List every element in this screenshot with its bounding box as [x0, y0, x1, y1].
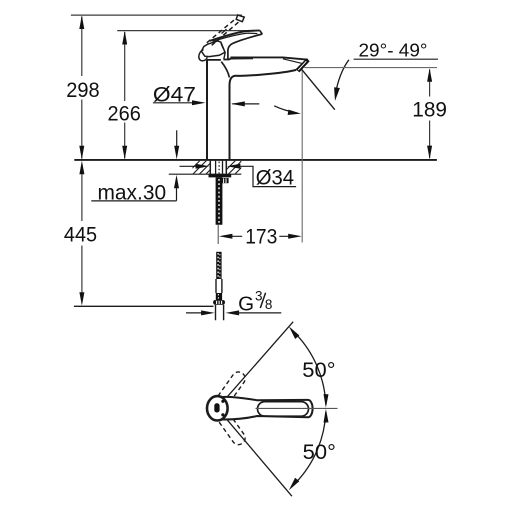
- angle leader arrowhead: [334, 87, 340, 101]
- swing arc lower bottom arrowhead: [289, 478, 299, 490]
- svg-text:189: 189: [412, 98, 447, 122]
- dimension 173 right arrowhead: [288, 234, 302, 239]
- dimension 266 line: [124, 32, 126, 159]
- dimension 298 line: [81, 17, 83, 159]
- swing arc lower: [296, 412, 326, 483]
- raised lever dashed lines: [207, 16, 242, 45]
- handle top view: swing diagonal lower: [218, 408, 292, 496]
- G3/8 underline: [237, 312, 281, 314]
- handle top view: swing diagonal upper: [218, 322, 294, 408]
- shank tube through deck: [210, 161, 226, 175]
- G3/8 tube: [216, 305, 224, 320]
- dimension 189 line: [429, 70, 431, 159]
- swing arc upper top arrowhead: [289, 326, 299, 339]
- diameter 34 right arrowhead: [227, 164, 241, 169]
- svg-text:173: 173: [245, 225, 277, 249]
- faucet body left edge: [206, 60, 208, 159]
- bottom reference line (445 level): [74, 305, 214, 307]
- reference line lever top (266 level): [117, 30, 248, 32]
- max30 bottom arrowhead: [174, 175, 179, 189]
- swing arc upper bottom arrowhead: [324, 394, 329, 408]
- dimension 445 arrow down: [79, 292, 84, 306]
- swivel curved arrow: [274, 106, 296, 113]
- dimension 173 left arrowhead: [219, 234, 233, 239]
- diameter 34 leader and underline: [238, 166, 296, 186]
- hose centerline: [217, 225, 219, 244]
- faucet body inner fillet: [221, 62, 229, 78]
- handle dashed position lower: [214, 408, 247, 447]
- dimension 445 line: [81, 164, 83, 299]
- lever blade underside: [228, 34, 262, 59]
- diameter 47 left-pointing arrow and line: [232, 103, 259, 105]
- dimension 266 arrow up: [122, 31, 127, 45]
- handle dashed position upper: [214, 369, 247, 408]
- reference line aerator (189 level): [304, 67, 437, 69]
- swing arc lower top arrowhead: [324, 409, 329, 423]
- lever knob lip: [199, 50, 207, 61]
- angle label 29-49 underline: [354, 58, 438, 60]
- max30 top arrow line: [176, 130, 178, 146]
- svg-text:Ø34: Ø34: [256, 167, 295, 190]
- diameter 47 underline: [153, 102, 196, 104]
- svg-text:50°: 50°: [302, 358, 335, 382]
- svg-text:266: 266: [108, 102, 141, 126]
- diameter 34 left arrow line: [180, 165, 199, 167]
- max30 underline: [91, 200, 176, 202]
- flexible hose braided section: [216, 252, 221, 279]
- svg-text:445: 445: [64, 223, 97, 247]
- handle pivot slot: [214, 403, 219, 412]
- dimension 189 arrow down: [427, 146, 432, 160]
- aerator slit: [298, 61, 306, 70]
- dimension 189 arrow up: [427, 68, 432, 82]
- dimension 298 arrow down: [79, 146, 84, 160]
- dimension 173 lines: [231, 235, 291, 237]
- handle grip bar: [258, 402, 309, 417]
- hose white tube section: [216, 279, 222, 293]
- svg-text:50°: 50°: [303, 440, 336, 464]
- reference line top (298 level): [71, 14, 242, 16]
- G3/8 dimension left arrowhead: [201, 310, 215, 315]
- svg-text:29°- 49°: 29°- 49°: [359, 39, 428, 60]
- hose dark band: [216, 293, 222, 300]
- handle centerline: [256, 407, 338, 409]
- lever knob outline: [201, 41, 225, 57]
- deck hatch left: [186, 161, 220, 175]
- lever knob crack line: [221, 43, 223, 48]
- G3/8 dimension right arrowhead: [226, 310, 240, 315]
- handle pivot screws: [221, 400, 224, 403]
- faucet body right edge and spout underside: [230, 70, 297, 159]
- aerator face: [296, 58, 310, 72]
- deck line: [74, 159, 437, 161]
- mounting washer: [209, 174, 232, 177]
- dimension 445 arrow up: [79, 161, 84, 175]
- lever neck front edge: [224, 53, 225, 60]
- angle leader curve: [335, 60, 349, 96]
- svg-text:G: G: [238, 292, 254, 315]
- dimension 298 arrow up: [79, 15, 84, 29]
- svg-text:3: 3: [255, 288, 263, 303]
- diameter 47 right arrow: [192, 100, 206, 105]
- lever blade inner line: [213, 33, 258, 41]
- lever blade tip cut: [260, 30, 263, 34]
- raised lever tip: [236, 15, 244, 22]
- svg-text:max.30: max.30: [98, 182, 167, 205]
- max30 top arrowhead: [174, 146, 179, 160]
- handle pivot cap: [207, 396, 228, 420]
- hose connector nut: [213, 300, 225, 305]
- water stream direction line: [301, 69, 335, 110]
- deck bottom line: [169, 173, 242, 175]
- spout top inner line: [231, 59, 302, 64]
- mounting nut: [222, 178, 229, 183]
- handle outer outline: [222, 397, 313, 420]
- G3/8 dimension left line: [186, 312, 203, 314]
- raised lever middle dash: [222, 29, 227, 33]
- max30 bottom arrow line: [176, 186, 178, 201]
- swing arc upper: [296, 334, 326, 405]
- deck hatch right: [222, 161, 256, 175]
- threaded shank: [216, 177, 223, 224]
- diameter 34 left arrowhead: [196, 164, 210, 169]
- lever blade top edge: [210, 30, 260, 40]
- svg-text:298: 298: [66, 78, 99, 102]
- extension line right vertical: [301, 70, 303, 242]
- spout top edge: [231, 57, 309, 59]
- dimension 266 arrow down: [122, 146, 127, 160]
- svg-text:8: 8: [265, 297, 273, 312]
- faucet body top edge: [207, 58, 231, 60]
